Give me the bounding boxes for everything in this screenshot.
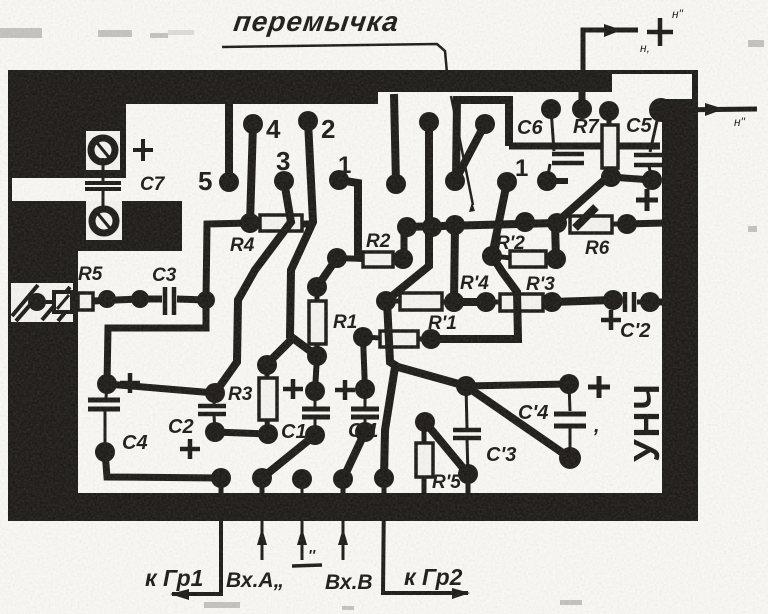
right pin 1 [497,172,517,192]
resistor R'5 [415,412,468,493]
wire J1 down, branch to J2 and to bottom pad [387,301,466,386]
R'2 left curve down to R'1 right wire [431,256,518,339]
resistor R2 [327,248,413,269]
capacitor C'1 [351,379,379,442]
capacitor C5 [634,98,673,190]
pin 3 trace (crosses R4) [215,181,291,393]
capacitor C2 junction [205,383,225,403]
mounting hole 2 [86,201,122,240]
перемычка label [232,6,402,37]
plus near C7 [133,139,153,161]
capacitor C'2 [625,292,650,312]
top bar hanging trace to pin 5 [225,100,233,182]
resistor R'1 [353,327,441,349]
wire: C3 row to C4 top [107,300,206,384]
right side exit arrow [668,109,757,110]
wire C3 row [140,296,162,303]
hanging trace from top bar [394,94,396,184]
board frame (black border with interior cut out) [8,70,698,521]
capacitor C4 [88,374,120,462]
trace pad to jumper row and J1 [386,122,429,301]
capacitor C3 [165,287,206,315]
wire R'2 right up to jumper end [555,224,556,259]
pin 2 trace [290,121,317,356]
wire right pin1 to R'2 left [492,182,507,256]
capacitor C6 [537,109,584,191]
bottom pads row [211,468,231,488]
resistor R5 [78,293,140,310]
capacitor C2 [198,393,226,442]
wire R7 bottom to C5 bottom [611,177,652,180]
pin 1 trace [339,180,358,259]
resistor R4 [260,215,302,231]
wire J2 to C'4 bottom [466,386,570,458]
wire: C4 bottom to pad row [105,452,221,478]
Вх.А pin [261,493,264,560]
к Гр2 wire [383,493,468,593]
wire R'4 right to R'3 left [454,298,486,306]
node J2 [456,376,476,396]
pin 4 trace [250,124,253,223]
resistor R7 [601,111,621,187]
wire: C3 row up to R4 row [206,223,250,300]
capacitor C1 [302,381,330,445]
Вх.В pin [342,493,345,560]
wire R'3 right to C'2 [552,300,613,302]
wire: R2 left to R1 top [317,258,337,287]
wire C2 bottom to R3 bottom [215,432,268,434]
left edge connector (hatched) [11,283,73,322]
middle pin [301,493,304,560]
free pad diagonal [455,124,485,181]
resistor R3 [257,339,292,444]
loop trace with pad [456,100,509,181]
wire R'1 left pad down to C'1 [363,337,365,389]
wire R1 bottom to C1 top [315,356,317,391]
wire junction to C4 top [107,384,215,393]
resistor R'2 [510,251,546,267]
diagonal jumper end to R7 bottom [555,176,609,224]
resistor R6 (diagonal crosses body) [570,216,612,233]
wire row y146 to right border [509,143,660,150]
jumper row wire [404,223,557,227]
node pads C3 row [98,290,116,308]
top bar pads C6 R7 C5 [541,99,561,119]
capacitor C'3 [453,386,481,493]
resistor R'4 [400,293,442,310]
capacitor C7 [85,158,121,212]
wire R2 right up to jumper row [401,227,408,259]
wire C'1 bottom to pad [343,432,365,479]
wire C1 bottom to pad [262,435,315,478]
resistor R'3 [500,294,543,311]
mounting hole 1 [86,131,120,170]
vertical jumper row to R'4 right [454,225,455,302]
node J1 [376,291,396,311]
к Гр1 wire [172,493,221,594]
capacitor C'4 [554,384,586,458]
wire J2 to C'4 top [466,384,569,386]
resistor R1 [307,287,327,366]
top right power exit [583,30,638,70]
